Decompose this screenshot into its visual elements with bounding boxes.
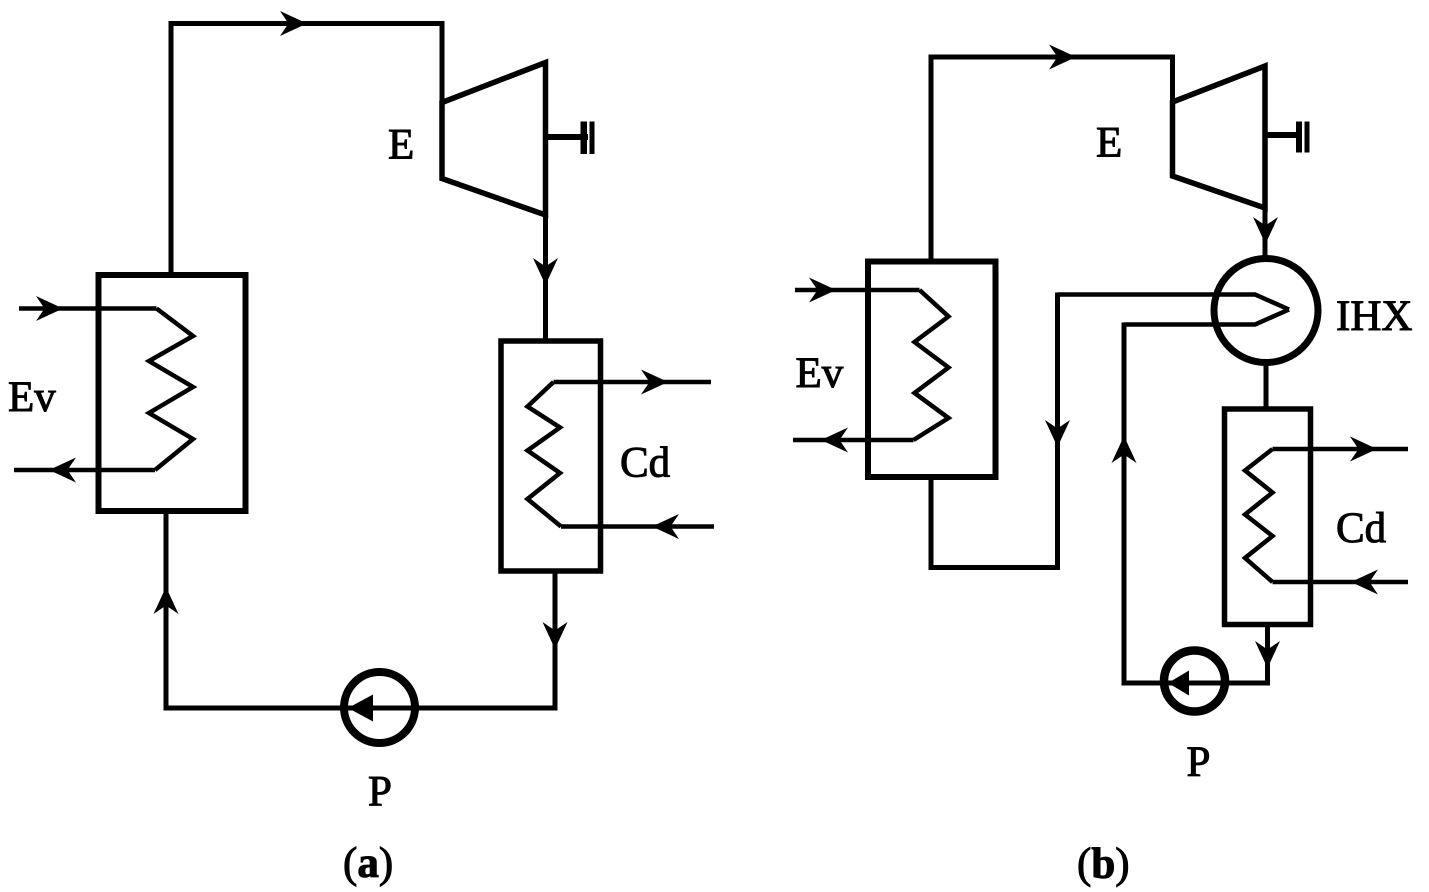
evaporator coil (diagram a)	[149, 309, 193, 471]
evaporator heat source outlet line (diagram b)	[793, 438, 914, 443]
flow arrow left coolant inlet (diagram a)	[652, 514, 679, 539]
svg-text:P: P	[368, 769, 392, 816]
condenser coil (diagram b)	[1245, 449, 1273, 582]
flow arrow right heat inlet (diagram a)	[36, 296, 63, 321]
condenser coolant outlet line (diagram a)	[554, 380, 712, 385]
pump flow arrow left (diagram a)	[348, 695, 373, 722]
flow arrow right heat inlet (diagram b)	[809, 278, 836, 303]
flow arrow right on top run (diagram b)	[1049, 45, 1076, 70]
evaporator Ev shell (diagram b)	[868, 262, 996, 478]
pump P (diagram b)	[1164, 651, 1225, 712]
condenser Cd shell (diagram a)	[501, 341, 601, 571]
wire: IHX cold outlet drop (diagram b)	[1055, 293, 1060, 571]
flow arrow left heat outlet (diagram b)	[821, 428, 848, 453]
condenser coil (diagram a)	[528, 382, 562, 527]
shaft end tick 1 (diagram a)	[581, 122, 588, 155]
wire: riser into evaporator bottom (diagram b)	[929, 474, 934, 570]
condenser coolant outlet line (diagram b)	[1273, 447, 1409, 452]
wire: condenser outlet down (diagram b)	[1265, 622, 1270, 686]
condenser coolant inlet line (diagram b)	[1273, 580, 1409, 585]
condenser Cd shell (diagram b)	[1225, 409, 1311, 625]
svg-text:IHX: IHX	[1336, 293, 1412, 340]
wire: pump discharge riser to IHX (diagram b)	[1122, 323, 1127, 686]
flow arrow right coolant outlet (diagram a)	[641, 370, 668, 395]
flow arrow right on top run (diagram a)	[280, 11, 307, 36]
IHX shell circle (diagram b)	[1214, 259, 1318, 363]
expander E (diagram b)	[1173, 66, 1266, 208]
evaporator heat source inlet line (diagram a)	[19, 306, 157, 311]
pump P (diagram a)	[344, 672, 415, 743]
flow arrow down condenser outlet (diagram b)	[1255, 641, 1280, 668]
wire: evaporator Ev top outlet riser (diagram a)	[169, 21, 174, 277]
wire: drop into expander inlet (diagram b)	[1170, 55, 1175, 106]
flow arrow left coolant inlet (diagram b)	[1351, 570, 1378, 595]
wire: condenser outlet down (diagram a)	[553, 569, 558, 711]
wire: top horizontal run Ev to E (diagram b)	[929, 55, 1173, 60]
wire: expander outlet to IHX (diagram b)	[1263, 205, 1268, 260]
wire: bottom horizontal to evaporator (diagram b)	[931, 565, 1060, 570]
wire: bottom horizontal run through pump (diagram a)	[164, 706, 556, 711]
flow arrow up riser (diagram a)	[154, 587, 179, 614]
svg-text:Ev: Ev	[8, 374, 56, 421]
svg-text:E: E	[388, 122, 414, 169]
shaft end tick 2 (diagram b)	[1305, 122, 1310, 153]
flow arrow up pump riser (diagram b)	[1112, 436, 1137, 463]
wire: expander outlet to condenser (diagram a)	[543, 212, 548, 339]
wire: pump discharge riser to evaporator (diagram a)	[164, 509, 169, 711]
flow arrow down expander to IHX (diagram b)	[1253, 217, 1278, 244]
wire: top horizontal run Ev to E (diagram a)	[169, 21, 443, 26]
flow arrow right coolant outlet (diagram b)	[1350, 437, 1377, 462]
expander E (diagram a)	[442, 63, 546, 216]
wire: evaporator Ev top outlet riser (diagram b)	[929, 55, 934, 264]
wire: drop into expander inlet (diagram a)	[440, 21, 445, 105]
svg-text:(b): (b)	[1077, 841, 1130, 888]
shaft end tick 2 (diagram a)	[590, 122, 595, 155]
flow arrow down IHX cold outlet (diagram b)	[1045, 420, 1070, 447]
svg-text:P: P	[1187, 739, 1211, 786]
wire: IHX to condenser (diagram b)	[1264, 360, 1269, 411]
svg-text:(a): (a)	[343, 840, 393, 887]
flow arrow left heat outlet (diagram a)	[49, 458, 76, 483]
wire: bottom horizontal run through pump (diagram b)	[1122, 681, 1268, 686]
IHX cold-side inlet line with internal point (diagram b)	[1124, 310, 1289, 325]
expander shaft (diagram b)	[1265, 132, 1299, 138]
IHX cold-side outlet line with internal point (diagram b)	[1058, 295, 1290, 310]
evaporator coil (diagram b)	[914, 290, 949, 440]
shaft end tick 1 (diagram b)	[1296, 122, 1302, 153]
svg-text:E: E	[1096, 120, 1122, 167]
evaporator heat source outlet line (diagram a)	[14, 468, 155, 473]
evaporator Ev shell (diagram a)	[99, 275, 246, 511]
pump flow arrow left (diagram b)	[1168, 671, 1189, 696]
flow arrow down expander to condenser (diagram a)	[533, 258, 558, 285]
svg-text:Ev: Ev	[796, 350, 844, 397]
svg-text:Cd: Cd	[620, 440, 670, 487]
expander shaft (diagram a)	[546, 134, 589, 140]
svg-text:Cd: Cd	[1336, 505, 1386, 552]
condenser coolant inlet line (diagram a)	[561, 524, 714, 529]
flow arrow down condenser outlet (diagram a)	[543, 622, 568, 649]
evaporator heat source inlet line (diagram b)	[795, 288, 920, 293]
